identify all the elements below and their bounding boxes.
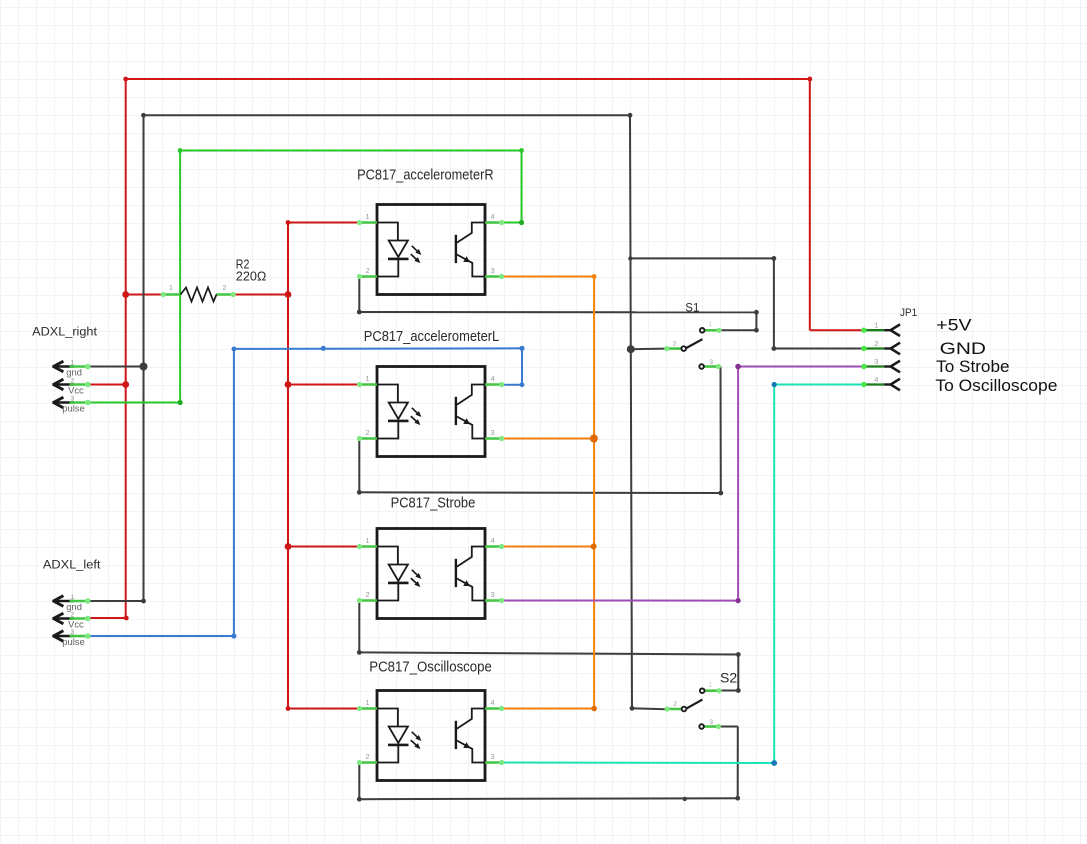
wire gray U1 pin2 down [358,277,360,313]
wire red top horizontal [126,78,810,80]
svg-text:1: 1 [365,374,369,383]
wire orange vertical [593,277,595,709]
svg-text:3: 3 [709,719,713,726]
junction gray S2pin3 bottom [735,796,740,801]
U4 pin 2 [357,760,377,765]
wire gray S2 pin2 stub [632,707,666,710]
U1 pin 3 [485,274,504,279]
JP1 pin 1 [861,324,900,336]
wire red left vertical [125,79,127,618]
svg-text:4: 4 [874,375,878,384]
wire red to JP1 pin1 [810,329,866,331]
wire blue vertical [233,349,235,636]
U4 LED symbol [377,709,409,763]
svg-text:1: 1 [874,321,878,330]
U2 light arrows [411,408,422,425]
wire orange U2 pin3 [503,438,594,440]
wire gray left vertical [143,115,145,601]
svg-text:gnd: gnd [66,601,82,612]
junction orange U3 pin4 [591,544,597,550]
U4 pin 3 [485,760,504,765]
ADXL_left pin 1 leg [70,598,91,604]
wire blue U2 pin4 stub [503,384,522,386]
S2 pin 3 [699,724,721,729]
U3 LED symbol [377,547,409,601]
wire cyan vertical [773,385,775,764]
junction gray U3pin2 corner [357,650,362,655]
svg-text:2: 2 [673,340,677,347]
R2 pin numbers [169,285,227,292]
wire gray U3 pin2 down [358,601,360,653]
U1 pin 2 [357,274,377,279]
junction blue corner top [232,347,237,352]
wire gray to right upper [630,257,774,259]
wire gray S1 pin3 vertical [720,367,722,494]
wire gray U1 pin2 across [359,311,756,313]
wire orange U1 pin3 [503,276,594,278]
wire gray top horizontal [144,114,631,116]
wire red ADXL_left Vcc [89,617,126,619]
U1 pin 1 [357,220,377,225]
ADXL_right pin 2 leg [70,382,91,388]
svg-text:pulse: pulse [62,636,84,647]
svg-text:To Oscilloscope: To Oscilloscope [935,376,1057,395]
wire red to U4 pin1 [288,708,359,710]
svg-text:3: 3 [490,266,494,275]
ADXL_left pin 3 leg [70,633,91,639]
svg-text:1: 1 [365,698,369,707]
wire red to U3 pin1 [288,546,359,548]
junction gray bottom bendpoint [683,797,687,801]
junction red ADXL_left Vcc corner [124,616,129,621]
wire gray U3 pin2 across [359,652,738,654]
op-amp U4 PC817 box [377,691,485,781]
wire gray to S2 pin3 [720,726,737,728]
junction gray U1pin2 corner [357,310,362,315]
svg-text:+5V: +5V [936,315,972,334]
svg-text:2: 2 [673,701,677,708]
junction blue corner bottom [231,633,236,638]
svg-text:2: 2 [223,285,227,292]
wire gray to JP1 pin2 [774,348,866,350]
wire blue horizontal [234,347,522,350]
junction blue end [520,382,525,387]
svg-text:220Ω: 220Ω [236,268,267,283]
op-amp U2 PC817 box [377,367,485,457]
U3 pin 3 [485,598,504,603]
junction cyan corner bottom [771,760,777,766]
svg-text:1: 1 [365,536,369,545]
U1 light arrows [411,246,422,263]
resistor R2 220ohm [161,288,236,302]
junction blue bendpoint [321,346,326,351]
wire gray U2 pin2 down [358,439,360,493]
svg-text:JP1: JP1 [900,307,917,319]
JP1 pin 2 [861,343,900,355]
svg-text:PC817_accelerometerL: PC817_accelerometerL [364,328,499,345]
junction red corner top-right [807,77,812,82]
svg-text:1: 1 [365,212,369,221]
wire green down to U1 pin4 [521,151,523,223]
wire red to R2 pin1 [126,294,162,296]
S1 pin 2 [664,346,686,351]
svg-text:2: 2 [365,266,369,275]
U3 pin 1 [357,544,377,549]
junction purple corner bottom [736,598,741,603]
svg-text:PC817_Oscilloscope: PC817_Oscilloscope [369,659,492,676]
wire purple JP1 pin3 [738,366,866,368]
junction gray S1pin3 end [718,491,723,496]
wire orange U4 pin4 [503,708,594,710]
wire red to U2 pin1 [288,384,359,386]
U4 light arrows [411,732,422,749]
wire orange U3 pin4 [503,546,594,548]
svg-text:4: 4 [490,536,494,545]
svg-text:2: 2 [365,590,369,599]
wire gray S2 pin3 vertical [737,727,739,799]
wire gray U2 pin2 across [359,491,721,494]
S1 lever [686,339,702,348]
svg-text:Vcc: Vcc [68,618,84,629]
wire gray ADXL_left gnd [89,600,144,602]
junction blue corner right [519,346,524,351]
U2 pin 4 [485,382,504,387]
U2 pin 3 [485,436,504,441]
svg-text:3: 3 [490,590,494,599]
wire red from R2 pin2 [235,294,288,296]
wire green U1 pin4 stub [503,222,522,224]
svg-text:PC817_accelerometerR: PC817_accelerometerR [357,166,494,183]
svg-text:4: 4 [490,212,494,221]
wire gray mid vertical S1-S2 [630,115,632,708]
S2 pin 2 [665,706,687,711]
junction red R2 right [285,291,292,298]
ADXL_left pin 3 arrow [53,631,74,642]
junction red U1 pin1 corner [286,220,291,225]
S1 pin 3 [699,364,721,369]
junction gray S1 corner b [754,328,759,333]
junction gray ADXL_right gnd [140,363,148,371]
junction gray mid top corner [628,113,633,118]
U3 phototransistor [456,547,485,601]
ADXL_right pin 2 arrow [53,379,74,390]
wire cyan to U4 pin3 [503,762,774,765]
svg-text:GND: GND [940,339,986,358]
svg-text:To Strobe: To Strobe [936,357,1009,376]
junction cyan corner top [772,382,777,387]
U2 pin 1 [357,382,377,387]
junction orange bottom corner [591,706,597,712]
wire red to U1 pin1 [288,222,359,224]
svg-text:S1: S1 [685,303,699,315]
junction gray ADXL_left gnd corner [141,599,146,604]
ADXL_right pin 3 arrow [53,397,74,408]
wire cyan JP1 pin4 [774,384,866,386]
wire blue ADXL_left pulse [89,635,234,637]
svg-text:3: 3 [490,752,494,761]
wire gray U4 pin2 down [358,763,360,800]
S2 pin 1 [700,688,722,693]
wire red middle vertical [287,223,289,709]
ADXL_left pin 2 arrow [53,613,74,624]
junction gray S2 corner b [736,688,741,693]
U3 pin 2 [357,598,377,603]
svg-text:2: 2 [365,428,369,437]
U1 LED symbol [377,223,409,277]
svg-text:4: 4 [490,698,494,707]
junction green U1 pin4 [519,220,524,225]
svg-text:1: 1 [708,682,712,689]
wire green top horizontal [180,150,521,152]
junction red ADXL_right Vcc [122,381,129,388]
JP1 pin 4 [861,379,900,391]
junction orange corner top [592,274,597,279]
wire gray to S2 pin1 [721,690,738,692]
junction green corner right [519,148,524,153]
svg-text:Vcc: Vcc [68,384,84,395]
svg-text:3: 3 [709,359,713,366]
S2 lever [687,700,703,709]
wire red right vertical to JP1 [809,79,811,330]
wire gray right vertical to JP1 [773,258,775,348]
U4 pin 4 [485,706,504,711]
junction red U4 pin1 corner [286,706,291,711]
op-amp U3 PC817 box [377,529,485,619]
junction gray branch [628,256,632,260]
ADXL_left pin 1 arrow [53,596,74,607]
U2 pin 2 [357,436,377,441]
op-amp U1 PC817 box [377,205,485,295]
junction gray S1 pin2 [627,345,635,353]
junction gray U2pin2 corner [357,490,362,495]
svg-text:PC817_Strobe: PC817_Strobe [391,495,476,512]
junction red U2 pin1 [285,381,292,388]
svg-text:3: 3 [874,357,878,366]
wire green ADXL_right pulse [89,402,180,404]
svg-text:2: 2 [874,339,878,348]
U4 pin 1 [357,706,377,711]
wire gray S2 pin1 down [737,655,739,691]
junction red R2 left [122,291,129,298]
junction gray S1 corner a [754,310,759,315]
junction gray S2 corner a [736,652,741,657]
svg-text:4: 4 [490,374,494,383]
U3 light arrows [411,570,422,587]
wire gray to S1 pin1 [721,329,757,331]
junction gray corner2 [772,346,777,351]
svg-text:3: 3 [490,428,494,437]
U2 phototransistor [456,385,485,439]
wire blue down to U2 pin4 [521,348,523,384]
junction gray S2 corner [630,706,635,711]
svg-text:2: 2 [365,752,369,761]
junction purple corner top [735,364,741,370]
U2 LED symbol [377,385,409,439]
wire red ADXL_right Vcc [89,384,126,386]
wire purple to U3 pin3 [503,600,738,602]
junction green corner [178,400,183,405]
wire purple vertical [737,367,739,601]
JP1 pin 3 [861,361,900,373]
junction red corner top-left [123,77,128,82]
svg-text:pulse: pulse [62,402,84,413]
junction gray U4pin2 corner [357,797,362,802]
svg-text:ADXL_left: ADXL_left [43,557,101,571]
U4 phototransistor [456,709,485,763]
U1 phototransistor [456,223,485,277]
wire gray S1 pin1 down [755,312,757,330]
junction gray corner [772,256,777,261]
junction gray top-left corner [141,113,146,118]
wire green left vertical [179,151,181,403]
junction orange U2 pin3 [590,435,598,443]
U1 pin 4 [485,220,504,225]
junction green corner top [178,148,183,153]
svg-text:1: 1 [169,285,173,292]
ADXL_right pin 3 leg [70,400,91,406]
svg-text:ADXL_right: ADXL_right [32,324,97,338]
wire gray U4 pin2 across bottom [359,798,737,799]
wire gray to S1 pin2 [631,348,666,351]
ADXL_right pin 1 arrow [53,361,74,372]
junction red U3 pin1 [285,543,292,550]
wire gray ADXL_right gnd [89,366,144,368]
S1 pin 1 [700,328,722,333]
U3 pin 4 [485,544,504,549]
svg-text:S2: S2 [720,669,737,685]
ADXL_right pin 1 leg [70,364,91,370]
svg-text:1: 1 [708,321,712,328]
ADXL_left pin 2 leg [70,616,91,622]
svg-text:gnd: gnd [66,366,82,377]
